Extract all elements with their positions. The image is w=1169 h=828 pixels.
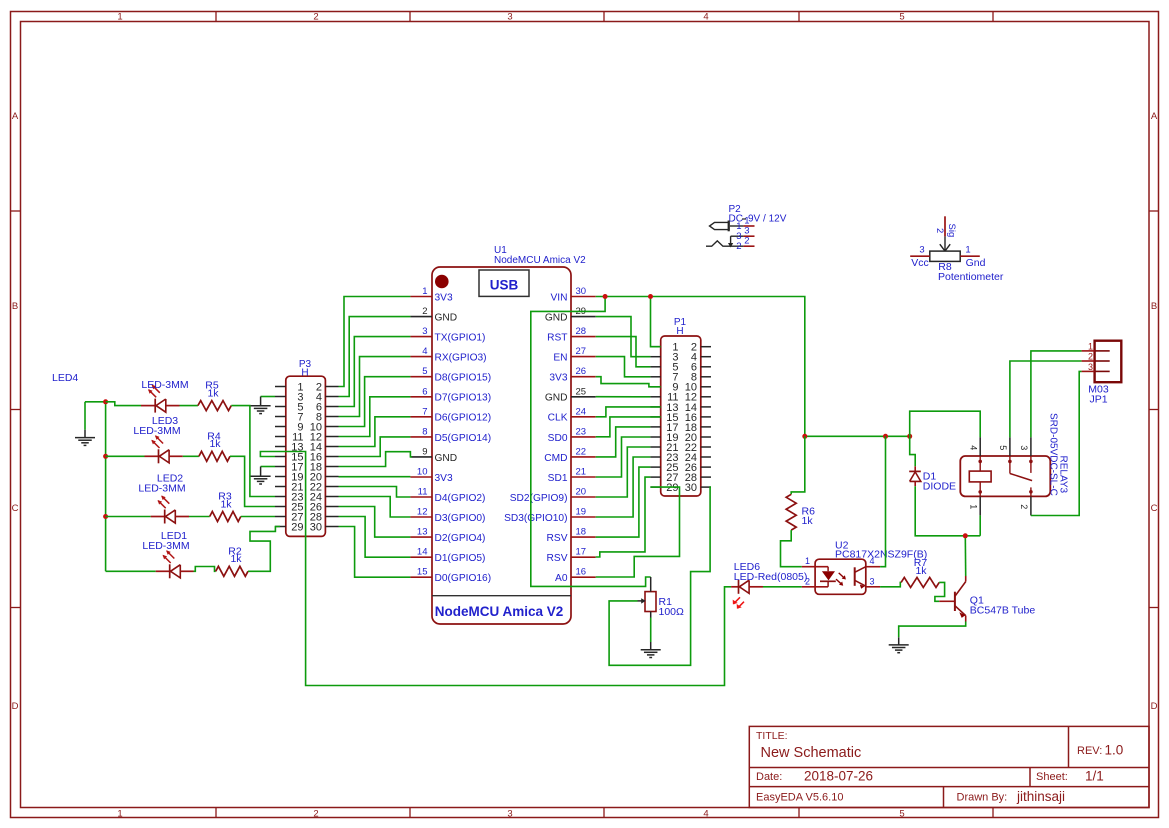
- svg-text:D7(GPIO13): D7(GPIO13): [435, 393, 492, 404]
- svg-text:1k: 1k: [207, 387, 219, 399]
- U1 pin 9 GND: [410, 446, 457, 463]
- op-amp U1 body NodeMCU Amica V2: [432, 267, 571, 624]
- svg-text:GND: GND: [435, 313, 458, 324]
- P1 pins 11/12 row: [650, 392, 711, 404]
- wire P3.12 to U1.6: [339, 397, 411, 437]
- svg-text:3V3: 3V3: [435, 292, 453, 303]
- svg-text:REV:: REV:: [1077, 745, 1102, 757]
- svg-text:20: 20: [576, 487, 587, 498]
- P1 pins 29/30 row: [650, 482, 711, 494]
- svg-text:1: 1: [805, 556, 810, 566]
- svg-text:LED-3MM: LED-3MM: [133, 425, 180, 437]
- svg-text:SD1: SD1: [548, 473, 568, 484]
- svg-text:11: 11: [418, 487, 428, 498]
- P1 pins 3/4 row: [650, 352, 711, 364]
- svg-text:RSV: RSV: [547, 553, 568, 564]
- ground G1 left: [75, 402, 95, 446]
- svg-text:Drawn By:: Drawn By:: [957, 792, 1008, 804]
- LED6 LED-Red(0805): [731, 580, 763, 609]
- wire U1.20 to P1.21: [596, 447, 651, 497]
- svg-text:D1(GPIO5): D1(GPIO5): [435, 553, 486, 564]
- wire U1.29 to P1.3: [596, 317, 651, 357]
- wire rail to R6: [791, 436, 805, 494]
- svg-text:21: 21: [576, 467, 587, 478]
- svg-text:Sig: Sig: [946, 224, 957, 238]
- wire Q1 emitter to ground: [899, 622, 966, 638]
- svg-text:LED-Red(0805): LED-Red(0805): [734, 571, 808, 583]
- svg-text:2: 2: [1019, 504, 1029, 509]
- title block text Sheet: [1036, 769, 1104, 784]
- svg-text:1: 1: [422, 286, 427, 297]
- U1 pin 29 GND: [545, 306, 596, 323]
- svg-text:3: 3: [507, 12, 512, 23]
- U1 pin 20 SD2(GPIO9): [510, 487, 596, 504]
- svg-text:LED4: LED4: [52, 372, 78, 384]
- U1 pin 7 D6(GPIO12): [410, 406, 491, 423]
- svg-text:1: 1: [1088, 341, 1093, 351]
- svg-text:1: 1: [117, 12, 122, 23]
- svg-text:C: C: [12, 503, 19, 514]
- P3 pins 27/28 row: [275, 511, 339, 523]
- svg-text:USB: USB: [490, 278, 519, 293]
- ruler ticks left: [10, 211, 21, 608]
- U1 pin 17 RSV: [547, 547, 596, 564]
- U1 USB box: [479, 270, 529, 296]
- U1 pin 22 CMD: [544, 446, 595, 463]
- svg-text:TX(GPIO1): TX(GPIO1): [435, 333, 486, 344]
- wire rail to LED2: [106, 516, 151, 518]
- svg-text:2: 2: [1088, 352, 1093, 362]
- svg-text:8: 8: [422, 426, 427, 437]
- node VIN junctions: [603, 294, 653, 299]
- svg-text:D0(GPIO16): D0(GPIO16): [435, 573, 492, 584]
- svg-text:29: 29: [291, 521, 303, 533]
- wire R2 staircase to P3 pin29: [248, 527, 280, 572]
- resistor R7: [901, 557, 939, 587]
- wire R5 to P3 pin23: [231, 406, 275, 497]
- svg-text:2: 2: [934, 228, 945, 233]
- svg-text:15: 15: [417, 567, 428, 578]
- svg-text:9: 9: [422, 446, 427, 457]
- svg-text:2: 2: [313, 808, 318, 819]
- op-amp U2 PC817 body: [802, 540, 927, 595]
- svg-text:CLK: CLK: [548, 413, 568, 424]
- svg-text:30: 30: [685, 482, 697, 494]
- svg-text:5: 5: [998, 445, 1008, 450]
- connector JP1 M03: [1082, 341, 1122, 406]
- P1 reference label: [674, 317, 687, 337]
- svg-text:3: 3: [1019, 445, 1029, 450]
- svg-text:1k: 1k: [220, 498, 232, 510]
- label RELAY3: [1058, 456, 1069, 494]
- wire U1.23 to P1.15: [596, 417, 661, 437]
- wire P3.4 to U1.2: [339, 317, 411, 397]
- svg-text:D5(GPIO14): D5(GPIO14): [435, 433, 492, 444]
- label LED4 name: [52, 372, 78, 384]
- svg-text:30: 30: [310, 521, 322, 533]
- P3 pins 23/24 row: [275, 491, 339, 503]
- svg-text:3: 3: [507, 808, 512, 819]
- P1 pins 19/20 row: [650, 432, 711, 444]
- svg-text:D2(GPIO4): D2(GPIO4): [435, 533, 486, 544]
- U1 pin 3 TX(GPIO1): [410, 326, 485, 343]
- U1 pin 11 D4(GPIO2): [410, 487, 485, 504]
- svg-text:13: 13: [417, 527, 428, 538]
- svg-text:22: 22: [576, 446, 587, 457]
- wire P3.14 to U1.7: [339, 417, 411, 447]
- svg-text:D8(GPIO15): D8(GPIO15): [435, 373, 492, 384]
- LED3 (LED-3MM): [145, 435, 183, 463]
- svg-text:1k: 1k: [802, 515, 814, 527]
- svg-text:CMD: CMD: [544, 453, 567, 464]
- wire R3 to P3 pin27: [241, 516, 275, 518]
- svg-text:3: 3: [870, 576, 875, 586]
- transistor Q1 BC547B: [939, 576, 1035, 622]
- svg-text:5: 5: [422, 366, 427, 377]
- wire R4 to P3 pin25: [230, 456, 275, 506]
- P1 pins 1/2 row: [650, 342, 711, 354]
- wire P3 pin15 bypass long net to LED6: [260, 452, 731, 686]
- svg-text:4: 4: [703, 808, 708, 819]
- svg-text:JP1: JP1: [1089, 394, 1107, 406]
- svg-text:4: 4: [422, 346, 427, 357]
- U1 pin 12 D3(GPIO0): [410, 507, 485, 524]
- ruler numbers bottom: [117, 808, 904, 819]
- wire U2 pin3 to R7: [880, 582, 901, 586]
- P3 pins 5/6 row: [275, 401, 339, 413]
- svg-text:RST: RST: [547, 333, 567, 344]
- svg-text:1k: 1k: [209, 438, 221, 450]
- U1 pin 16 A0: [555, 567, 596, 584]
- wire relay pin5 to JP1.2: [1010, 361, 1082, 437]
- P3 pins 3/4 row: [275, 391, 339, 403]
- title block text TITLE: [756, 730, 861, 761]
- wire relay pin1 down: [979, 515, 981, 535]
- svg-text:1: 1: [117, 808, 122, 819]
- connector P2 DC jack: [706, 204, 787, 252]
- node rail junctions: [103, 399, 108, 519]
- svg-text:A: A: [12, 111, 19, 122]
- svg-text:3V3: 3V3: [549, 373, 567, 384]
- wire U1.22 to P1.17: [596, 427, 651, 457]
- wire P3.2 to U1.1: [339, 297, 411, 387]
- wire VIN branch to P1 pin1: [651, 297, 661, 347]
- wire LED2 to R3: [189, 516, 210, 518]
- svg-text:4: 4: [969, 445, 979, 450]
- U1 pin 27 EN: [553, 346, 595, 363]
- U1 pin 28 RST: [547, 326, 596, 343]
- wire LED3 to R4: [183, 455, 199, 457]
- svg-text:6: 6: [422, 386, 427, 397]
- P3 pins 15/16 row: [275, 451, 339, 463]
- P3 pins 11/12 row: [275, 431, 339, 443]
- P1 pins 9/10 row: [650, 382, 711, 394]
- wire U1.21 to P1.19: [596, 437, 651, 477]
- ruler ticks right: [1149, 211, 1159, 608]
- U1 pin 5 D8(GPIO15): [410, 366, 491, 383]
- svg-text:29: 29: [666, 482, 678, 494]
- svg-text:2018-07-26: 2018-07-26: [804, 769, 873, 784]
- svg-text:9V / 12V: 9V / 12V: [748, 214, 787, 225]
- U1 pin 1 3V3: [410, 286, 453, 303]
- U1 pin 2 GND: [410, 306, 457, 323]
- resistor R5: [198, 380, 231, 411]
- wire P3.16 to U1.8: [339, 437, 411, 457]
- LED2 (LED-3MM): [151, 496, 189, 524]
- wire P3.8 to U1.4: [339, 357, 411, 417]
- P3 pins 25/26 row: [275, 501, 339, 513]
- P1 pins 25/26 row: [650, 462, 711, 474]
- wire D1 anode to relay pin1 and Q1: [915, 486, 980, 538]
- svg-text:VIN: VIN: [551, 292, 568, 303]
- ruler numbers top: [117, 12, 904, 23]
- wire U1.24 to P1.13: [596, 407, 661, 417]
- wire VIN main: [596, 297, 805, 437]
- svg-text:SD2(GPIO9): SD2(GPIO9): [510, 493, 568, 504]
- svg-text:Gnd: Gnd: [966, 257, 986, 269]
- svg-text:23: 23: [576, 426, 587, 437]
- svg-text:3: 3: [1088, 362, 1093, 372]
- svg-text:1k: 1k: [230, 553, 242, 565]
- svg-text:DIODE: DIODE: [923, 481, 956, 493]
- U1 pin 25 GND: [545, 386, 596, 403]
- LED4 (LED-3MM): [141, 385, 180, 413]
- svg-text:27: 27: [576, 346, 587, 357]
- svg-text:100Ω: 100Ω: [659, 606, 685, 618]
- wire U1.18 to P1.25: [596, 467, 651, 537]
- svg-text:5: 5: [899, 12, 904, 23]
- svg-text:LED-3MM: LED-3MM: [142, 540, 189, 552]
- P1 pins 15/16 row: [650, 412, 711, 424]
- resistor R2: [216, 545, 248, 576]
- potentiometer R1: [638, 577, 685, 618]
- wire U1.28 to P1.5: [596, 337, 651, 367]
- title block text Date: [756, 769, 873, 784]
- svg-text:SD0: SD0: [548, 433, 568, 444]
- wire rail to D1: [910, 436, 916, 466]
- svg-text:EN: EN: [553, 353, 567, 364]
- U1 pin 23 SD0: [548, 426, 596, 443]
- wire VIN branch through U1 to R1 top: [531, 297, 651, 587]
- ruler ticks top: [216, 11, 993, 22]
- wire LED4 to R5: [180, 405, 198, 407]
- ruler ticks bottom: [216, 808, 993, 819]
- svg-text:26: 26: [576, 366, 587, 377]
- svg-text:SD3(GPIO10): SD3(GPIO10): [504, 513, 567, 524]
- U1 pin 24 CLK: [548, 406, 596, 423]
- svg-text:BC547B Tube: BC547B Tube: [970, 605, 1036, 617]
- P3 pins 9/10 row: [275, 421, 339, 433]
- svg-text:14: 14: [417, 547, 428, 558]
- ground G2 at P3 pin3: [251, 397, 275, 414]
- U1 pin 26 3V3: [549, 366, 595, 383]
- svg-text:2: 2: [805, 576, 810, 586]
- U1 pin 14 D1(GPIO5): [410, 547, 485, 564]
- svg-text:D: D: [12, 701, 19, 712]
- svg-text:New Schematic: New Schematic: [761, 745, 862, 761]
- node rail dots: [802, 434, 912, 439]
- svg-text:EasyEDA V5.6.10: EasyEDA V5.6.10: [756, 792, 843, 804]
- ruler letters left: [12, 111, 19, 712]
- wire P3.22 to U1.11: [339, 487, 411, 498]
- svg-text:SRD-05VDC-SL-C: SRD-05VDC-SL-C: [1048, 413, 1059, 496]
- wire rail to relay pin4: [910, 411, 981, 437]
- relay RELAY3 SRD-05VDC-SL-C: [960, 437, 1050, 515]
- wire P3.26 to U1.13: [339, 507, 411, 538]
- U1 pin 19 SD3(GPIO10): [504, 507, 596, 524]
- title block text Drawn By: [957, 789, 1066, 804]
- U1 pin 6 D7(GPIO13): [410, 386, 491, 403]
- svg-text:1/1: 1/1: [1085, 769, 1104, 784]
- svg-text:RSV: RSV: [547, 533, 568, 544]
- wire R6 to U2 pin1: [781, 530, 802, 567]
- svg-text:18: 18: [576, 527, 587, 538]
- connector P1 body: [661, 336, 701, 496]
- ruler letters right: [1151, 111, 1158, 712]
- wire U1.19 to P1.23: [596, 457, 651, 517]
- label LED3 name/model: [133, 415, 180, 437]
- potentiometer R8: [910, 216, 1004, 283]
- wire U1.17 RSV to P1.27: [596, 477, 651, 557]
- svg-text:1k: 1k: [915, 565, 927, 577]
- P3 pins 13/14 row: [275, 441, 339, 453]
- wire relay pin2 to JP1.3: [1031, 371, 1082, 515]
- svg-text:Date:: Date:: [756, 771, 782, 783]
- resistor R6: [786, 494, 815, 530]
- svg-text:2: 2: [736, 241, 741, 252]
- wire row1 jog: [106, 402, 141, 406]
- U1 pin 30 VIN: [551, 286, 596, 303]
- wire P3.10 to U1.5: [339, 377, 411, 427]
- svg-text:B: B: [1151, 301, 1157, 312]
- svg-text:12: 12: [417, 507, 428, 518]
- svg-text:7: 7: [422, 406, 427, 417]
- wire P3.30 to U1.15: [339, 527, 411, 578]
- wire LED cathode rail: [105, 402, 107, 572]
- wire U1.26 to P1.9: [596, 377, 661, 387]
- wire U1.16 A0 to P1.29: [596, 487, 680, 577]
- svg-text:Vcc: Vcc: [911, 257, 929, 269]
- svg-text:D4(GPIO2): D4(GPIO2): [435, 493, 486, 504]
- P1 pins 13/14 row: [650, 402, 711, 414]
- svg-text:H: H: [676, 326, 683, 337]
- P3 reference label: [299, 359, 312, 378]
- wire rail to LED3: [106, 455, 145, 457]
- U1 pin 15 D0(GPIO16): [410, 567, 491, 584]
- svg-text:2: 2: [422, 306, 427, 317]
- svg-text:2: 2: [744, 235, 749, 246]
- svg-text:NodeMCU Amica V2: NodeMCU Amica V2: [435, 604, 564, 619]
- svg-text:A0: A0: [555, 573, 568, 584]
- label LED6: [734, 561, 808, 583]
- svg-text:16: 16: [576, 567, 587, 578]
- svg-text:1: 1: [965, 245, 970, 256]
- U1 pin 10 3V3: [410, 467, 453, 484]
- svg-text:TITLE:: TITLE:: [756, 730, 788, 742]
- label LED2 name/model: [138, 473, 185, 495]
- wire rail to LED1: [106, 570, 156, 572]
- svg-text:28: 28: [576, 326, 587, 337]
- title block: [749, 726, 1149, 807]
- svg-text:10: 10: [417, 467, 428, 478]
- title block text REV: [1077, 743, 1123, 758]
- P3 pins 17/18 row: [275, 461, 339, 473]
- svg-text:GND: GND: [545, 313, 568, 324]
- svg-text:3: 3: [919, 245, 924, 256]
- svg-text:H: H: [301, 367, 308, 378]
- ground G5: [889, 637, 909, 652]
- wire P3.24 to U1.12: [339, 497, 411, 518]
- LED1 (LED-3MM): [156, 550, 194, 578]
- wire power rail: [805, 435, 910, 437]
- svg-text:NodeMCU Amica V2: NodeMCU Amica V2: [494, 255, 586, 266]
- P1 pins 7/8 row: [650, 372, 711, 384]
- wire ground stub to rail: [85, 401, 106, 403]
- U1 pin 13 D2(GPIO4): [410, 527, 485, 544]
- P3 pins 21/22 row: [275, 481, 339, 493]
- svg-text:C: C: [1151, 503, 1158, 514]
- svg-text:GND: GND: [545, 393, 568, 404]
- svg-text:D6(GPIO12): D6(GPIO12): [435, 413, 492, 424]
- P1 pins 17/18 row: [650, 422, 711, 434]
- svg-text:17: 17: [576, 547, 587, 558]
- svg-text:3: 3: [422, 326, 427, 337]
- svg-text:D: D: [1151, 701, 1158, 712]
- P1 pins 21/22 row: [650, 442, 711, 454]
- svg-text:jithinsaji: jithinsaji: [1016, 789, 1065, 804]
- P3 pins 1/2 row: [275, 381, 339, 393]
- svg-text:5: 5: [899, 808, 904, 819]
- wire R7 to Q1 base: [935, 582, 945, 601]
- diode D1: [909, 466, 956, 492]
- wire P3.18 to U1.9 GND: [339, 452, 413, 467]
- svg-text:B: B: [12, 301, 18, 312]
- svg-text:LED-3MM: LED-3MM: [138, 483, 185, 495]
- svg-text:24: 24: [576, 406, 587, 417]
- wire LED6 to U2 pin2: [763, 586, 802, 588]
- svg-text:A: A: [1151, 111, 1158, 122]
- P3 pins 7/8 row: [275, 411, 339, 423]
- wire P3.28 to U1.14: [339, 517, 411, 558]
- wire LED1 to R2 with bump: [194, 567, 216, 572]
- svg-text:30: 30: [576, 286, 587, 297]
- U1 pin1 marker dot: [435, 275, 449, 289]
- P1 pins 23/24 row: [650, 452, 711, 464]
- svg-text:3V3: 3V3: [435, 473, 453, 484]
- svg-text:RX(GPIO3): RX(GPIO3): [435, 353, 487, 364]
- wire P3.6 to U1.3: [339, 337, 411, 407]
- label LED1 name/model: [142, 530, 189, 552]
- wire P3.20 to U1.10: [339, 476, 411, 478]
- resistor R3: [210, 491, 241, 522]
- svg-text:1.0: 1.0: [1105, 743, 1124, 758]
- wire U1.27 to P1.7: [596, 357, 651, 377]
- U1 pin 4 RX(GPIO3): [410, 346, 486, 363]
- svg-text:4: 4: [703, 12, 708, 23]
- connector P3 body: [286, 376, 326, 536]
- ground G4 under R1: [641, 618, 661, 658]
- svg-text:19: 19: [576, 507, 587, 518]
- svg-text:GND: GND: [435, 453, 458, 464]
- svg-text:25: 25: [576, 386, 587, 397]
- wire rail to U2 pin4: [880, 436, 885, 566]
- svg-text:4: 4: [870, 556, 875, 566]
- U1 bottom label: [435, 604, 564, 619]
- P1 pins 5/6 row: [650, 362, 711, 374]
- title block text EasyEDA: [756, 792, 843, 804]
- wire Q1 collector up: [964, 536, 966, 576]
- P3 pins 29/30 row: [275, 521, 339, 533]
